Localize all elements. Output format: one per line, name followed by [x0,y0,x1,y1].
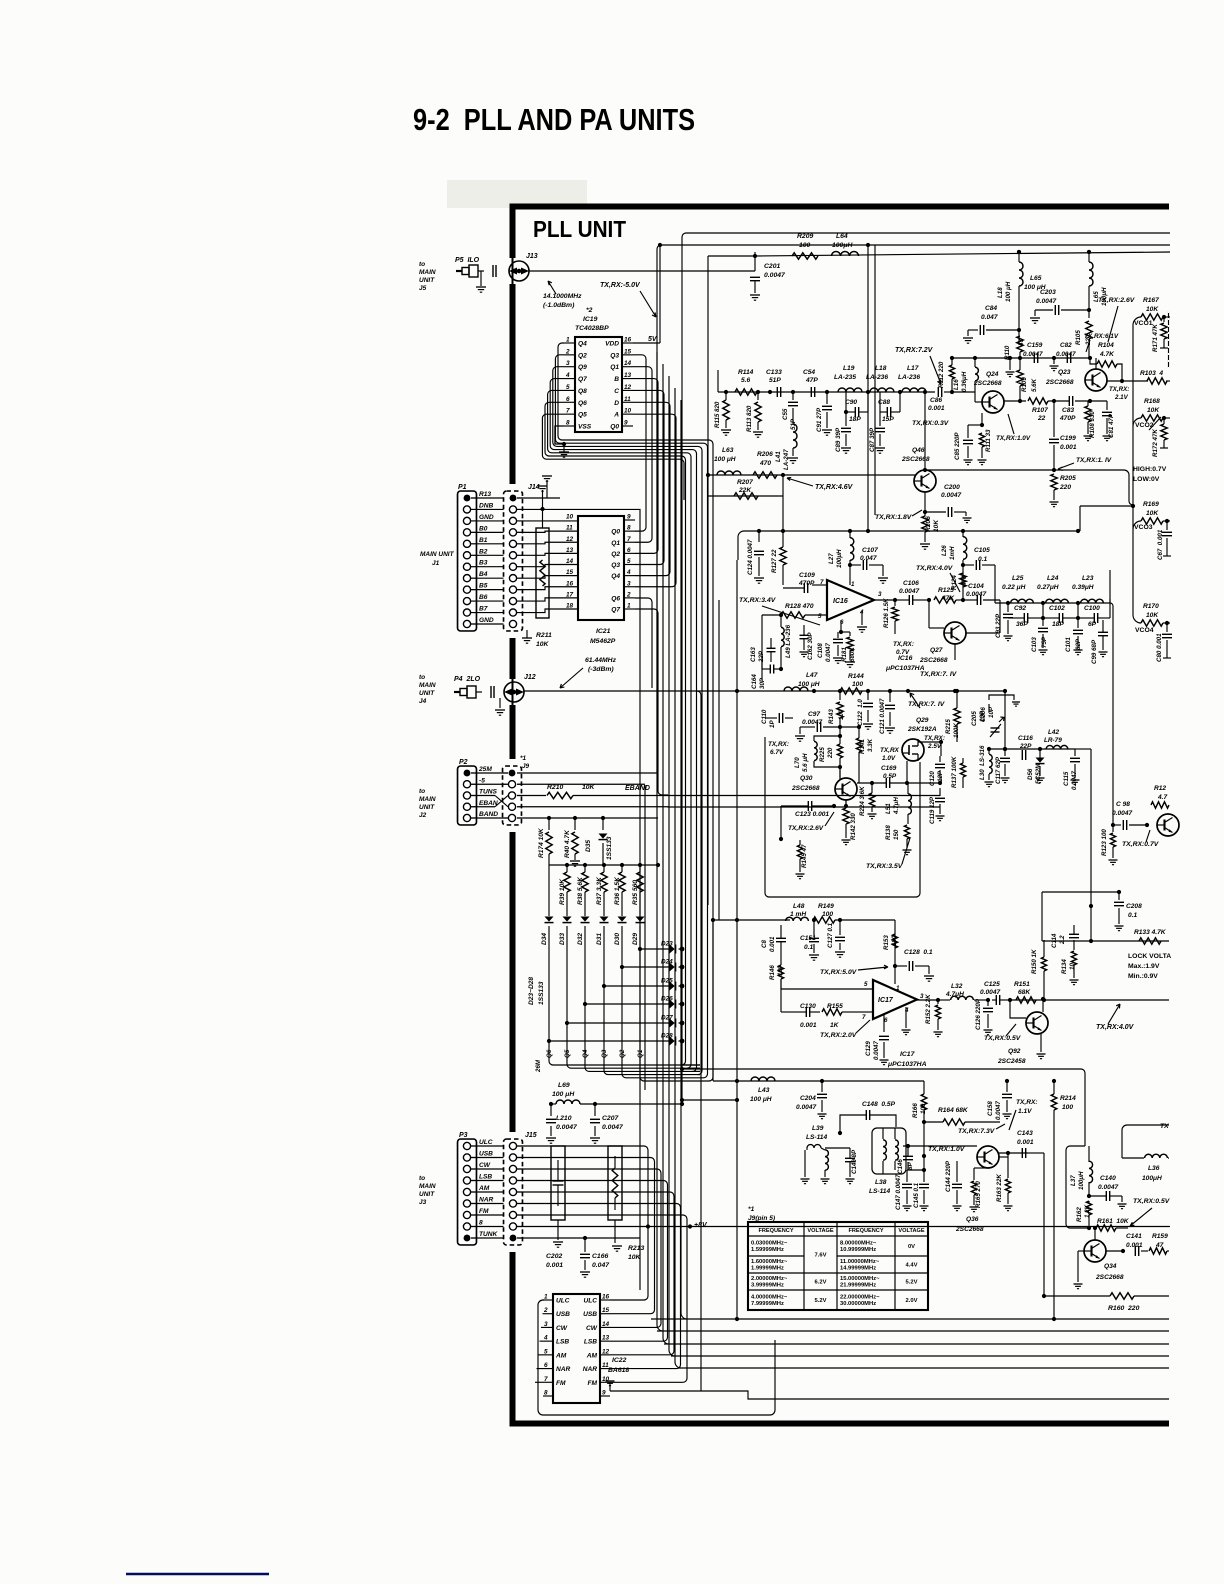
svg-text:L38: L38 [875,1179,887,1186]
TX RX 6.1V note [1084,333,1119,352]
svg-text:4.7K: 4.7K [1099,351,1115,358]
svg-text:VCO1: VCO1 [1134,320,1153,327]
capacitor C109 [783,572,827,593]
svg-text:M5462P: M5462P [590,638,616,645]
transistor Q34 [1084,1240,1124,1281]
IC22 nar wire [610,1364,1040,1366]
svg-text:15P: 15P [882,416,894,423]
capacitor C200 [923,484,972,523]
transformer L39 [801,1125,830,1184]
svg-text:C105: C105 [974,547,990,554]
svg-text:Q0: Q0 [611,529,620,536]
capacitor C130 [781,1003,820,1029]
svg-text:9-2 PLL AND PA UNITS: 9-2 PLL AND PA UNITS [413,102,695,137]
TX RX 0.5V note2 [1130,1198,1171,1226]
svg-text:B3: B3 [479,560,488,567]
IC21 M5462P [566,514,635,621]
blue underline mark [126,1573,269,1575]
svg-text:R109: R109 [1021,377,1028,392]
transistor Q27 [919,600,966,664]
svg-text:C151: C151 [800,935,816,942]
vco section box [737,733,920,897]
svg-text:5.2V: 5.2V [906,1280,918,1286]
svg-text:1: 1 [566,337,570,344]
svg-text:TX,RX:2.6V: TX,RX:2.6V [788,825,824,832]
svg-text:C163: C163 [750,647,757,662]
svg-text:100μH: 100μH [1078,1171,1085,1190]
svg-text:100 μH: 100 μH [714,456,736,463]
resistor R141 [856,725,874,783]
svg-text:ULC: ULC [583,1298,597,1305]
wire ic17 in [781,1011,800,1013]
resistor R123 [1101,825,1118,865]
svg-text:3: 3 [920,993,924,1000]
to MAIN UNIT J2 note [419,788,436,819]
svg-text:2SC2668: 2SC2668 [1095,1274,1124,1281]
svg-text:C90: C90 [845,399,857,406]
svg-text:R105: R105 [1075,330,1082,345]
svg-text:0.0047: 0.0047 [825,643,832,662]
svg-text:5.6: 5.6 [741,377,750,384]
TX RX 4.0V note [916,565,960,592]
wire txrx4 line [1008,998,1169,1002]
capacitor C83 [1059,396,1107,422]
IC22 BA618 [543,1294,610,1404]
wire x737 long [736,560,738,1319]
svg-text:1.1V: 1.1V [1018,1108,1032,1115]
svg-text:10: 10 [566,514,574,521]
wire Q23 collector [1095,358,1097,369]
svg-text:10K: 10K [582,784,596,791]
resistor R206a [753,451,777,478]
svg-text:R123 100: R123 100 [1101,829,1108,856]
resistor R160 [1042,1293,1169,1312]
svg-text:EBAND: EBAND [625,785,650,792]
inductor L69 [549,1082,684,1106]
svg-text:7: 7 [862,1014,866,1021]
svg-text:C108: C108 [817,643,824,658]
svg-text:C203: C203 [1040,289,1056,296]
svg-text:CW: CW [586,1325,598,1332]
svg-text:C82: C82 [1060,342,1072,349]
TX RX 7.2V note [895,347,941,384]
P3 pin labels [471,1139,508,1238]
svg-text:22: 22 [1037,415,1046,422]
svg-text:B6: B6 [479,594,488,601]
EBAND net label [625,785,650,792]
svg-text:0.36μH: 0.36μH [961,371,968,392]
resistor R125 [934,587,965,603]
svg-text:6: 6 [884,1017,888,1024]
svg-text:2SC2668: 2SC2668 [955,1226,984,1233]
svg-text:100μH: 100μH [836,549,843,568]
svg-text:J9: J9 [522,763,530,770]
svg-text:Q3: Q3 [611,562,620,569]
svg-text:R107: R107 [1032,407,1048,414]
P1 pin labels [471,491,506,624]
capacitor C55 [782,390,798,430]
svg-text:47K: 47K [941,595,955,602]
svg-text:3: 3 [878,591,882,598]
connector P2 [458,766,477,825]
svg-text:51P: 51P [769,377,781,384]
connector J9 [503,766,522,825]
svg-text:L41: L41 [775,451,782,462]
diode D35 [585,816,613,865]
svg-text:TX,RX:: TX,RX: [768,741,789,748]
wire L48 row [711,918,790,966]
capacitor C105 [963,547,995,570]
capacitor C141 [1126,1233,1148,1256]
svg-text:C128 0.1: C128 0.1 [904,949,933,956]
svg-text:R172 47K: R172 47K [1152,429,1159,457]
wires P2 to J9 [471,773,508,818]
title heading [413,102,695,137]
svg-text:TX,RX:1.0V: TX,RX:1.0V [996,435,1031,442]
svg-text:D35: D35 [585,840,592,852]
svg-text:AM: AM [586,1352,598,1359]
transistor Q23 [1045,369,1107,391]
IC17 pin3 [917,993,940,1002]
svg-text:4: 4 [565,372,570,379]
capacitor C110 [737,705,793,728]
capacitor C106 [895,580,931,605]
svg-text:Q3: Q3 [610,352,619,359]
svg-text:D29: D29 [632,933,639,945]
svg-text:C123 0.001: C123 0.001 [795,811,829,818]
svg-text:C200: C200 [944,484,960,491]
svg-text:L24: L24 [1047,575,1059,582]
svg-text:USB: USB [479,1151,493,1158]
svg-text:C205: C205 [971,711,978,726]
svg-text:R168: R168 [1144,398,1160,405]
capacitor C107 [850,547,888,583]
svg-text:L43: L43 [758,1087,770,1094]
TX RX 1.0V note3 [928,1146,966,1153]
ground at J12 [495,698,505,715]
svg-text:220: 220 [1059,484,1071,491]
TX RX 3.4V note [739,597,820,625]
wire ic16 out right [966,600,1000,633]
svg-text:LA-247: LA-247 [783,449,790,470]
svg-text:C206: C206 [980,707,987,722]
svg-text:LSB: LSB [479,1174,492,1181]
svg-text:B4: B4 [479,571,488,578]
svg-text:2SK192A: 2SK192A [907,726,937,733]
svg-text:R114: R114 [738,369,754,376]
variable capacitor C206 [980,695,1020,737]
svg-text:C117 62P: C117 62P [995,756,1002,784]
capacitor C91 [816,392,832,435]
IC22 right pin wires [535,1290,687,1382]
IC16 pin7 [812,579,827,586]
svg-text:Q92: Q92 [1008,1048,1021,1055]
inductor L30b [979,745,994,787]
svg-text:0.001: 0.001 [1017,1139,1034,1146]
svg-text:Q2: Q2 [619,1049,626,1058]
svg-text:J4: J4 [419,698,427,705]
resistor R210 [517,784,596,799]
svg-text:10.99999MHz: 10.99999MHz [840,1247,876,1253]
svg-text:R38 5.6K: R38 5.6K [577,876,584,905]
svg-text:NAR: NAR [583,1366,598,1373]
IC17 pin6 [884,1015,888,1032]
svg-text:0.047: 0.047 [860,555,877,562]
svg-text:10K: 10K [536,641,550,648]
TX RX 0.7V note2 [1122,830,1160,848]
capacitor C67 [1157,521,1172,560]
transistor Q30 [791,775,857,800]
IC22 left loop wire [538,1300,775,1415]
TX label cut [1160,1123,1169,1130]
inductor L25 [1002,575,1033,603]
ground above J14 [542,476,552,498]
capacitor C144 [945,1160,962,1211]
svg-text:(-1.0dBm): (-1.0dBm) [543,302,575,309]
svg-text:C120: C120 [929,771,936,786]
R170 VCO4 [1133,603,1170,634]
svg-text:Q2: Q2 [578,352,587,359]
svg-text:VOLTAGE: VOLTAGE [898,1228,924,1234]
svg-text:0.0047: 0.0047 [873,1041,880,1060]
svg-text:R213: R213 [628,1245,644,1252]
wire vco node [987,747,1075,751]
inductor L18b [997,250,1046,345]
wire fet source [906,761,908,783]
capacitor C90 [844,392,868,423]
capacitor C128 [893,949,934,981]
to MAIN UNIT J1 note [420,551,455,567]
svg-text:MAIN: MAIN [419,269,436,276]
svg-text:0.0047: 0.0047 [802,719,823,726]
svg-text:NAR: NAR [556,1366,571,1373]
capacitor C117 [995,749,1010,784]
ground at J13 [476,271,486,292]
vertical bus bundle [657,352,687,1368]
to MAIN UNIT J5 note [419,261,436,292]
LOCK VOLTAGE note [1128,953,1171,980]
resistor R205 [1050,474,1077,507]
svg-text:5: 5 [544,1348,548,1355]
inductor L42 [1044,729,1068,749]
svg-text:1 mH: 1 mH [790,911,806,918]
matrix diodes D34-D29 [541,865,645,1055]
resistor R126 [883,598,898,634]
IC17 pin7 [857,1012,873,1021]
svg-text:C89 39P: C89 39P [835,427,842,452]
connector P4 label [454,676,481,683]
wire EBAN row [517,806,940,808]
capacitor C204 [796,1081,827,1119]
svg-text:100 μH: 100 μH [1005,281,1012,302]
svg-text:L36: L36 [1148,1165,1160,1172]
svg-text:100: 100 [838,709,845,720]
resistor R108 [1084,401,1097,441]
svg-text:C166: C166 [592,1253,608,1260]
resistor R124 [951,573,968,590]
resistor R40 [564,816,580,866]
svg-text:1SS133: 1SS133 [538,981,545,1005]
J15 label [525,1132,537,1139]
svg-text:C126 220P: C126 220P [975,998,982,1030]
wire q92 emitter [1037,1034,1046,1059]
svg-text:C99 68P: C99 68P [1091,639,1098,664]
svg-text:C92: C92 [1014,605,1026,612]
HIGH LOW note [1133,466,1167,483]
svg-text:R138: R138 [885,825,892,840]
resistor R152 [925,994,943,1037]
svg-text:D: D [614,400,619,407]
svg-text:L23: L23 [1082,575,1094,582]
svg-text:C129: C129 [865,1041,872,1056]
svg-text:2SC2668: 2SC2668 [1045,379,1074,386]
svg-text:D31: D31 [596,933,603,945]
cap on P4 line [491,686,494,698]
svg-text:R37 3.3K: R37 3.3K [596,876,603,905]
svg-text:3.3K: 3.3K [867,738,874,752]
svg-text:2.00000MHz~: 2.00000MHz~ [751,1276,788,1282]
IC21 right pin bus wires [635,430,676,795]
svg-text:C124 0.0047: C124 0.0047 [747,539,754,575]
svg-text:8P: 8P [907,1162,914,1170]
svg-text:CW: CW [556,1325,568,1332]
svg-text:TX,RX:1. IV: TX,RX:1. IV [1076,457,1112,464]
svg-text:VOLTAGE: VOLTAGE [807,1228,833,1234]
TX RX 1.0V note2 [996,414,1031,442]
svg-text:L48: L48 [793,903,805,910]
svg-text:470P: 470P [798,580,815,587]
resistor network box [536,486,549,618]
svg-text:Q8: Q8 [578,388,587,395]
svg-text:470: 470 [961,575,968,587]
ground IC19 VSS [555,426,569,457]
J9 label [520,755,530,770]
IC16 name [885,655,925,672]
svg-text:TX,RX:4.6V: TX,RX:4.6V [815,484,854,491]
svg-text:15: 15 [624,348,632,355]
svg-text:100 μH: 100 μH [798,681,820,688]
capacitor C97 [795,711,859,741]
svg-text:13: 13 [602,1335,610,1342]
svg-text:4.7μH: 4.7μH [893,797,900,815]
svg-text:C207: C207 [602,1115,619,1122]
svg-text:C130: C130 [800,1003,816,1010]
wire mid right [994,565,996,603]
svg-text:6.7V: 6.7V [770,749,784,756]
R171 resistor [1152,317,1168,352]
resistor R146 [769,852,784,1012]
svg-text:UNIT: UNIT [419,804,435,811]
cut mark dashes [1168,311,1170,368]
svg-text:R215: R215 [945,719,952,734]
bottom bus line 1 [651,1317,1169,1321]
connector J13 [509,253,538,281]
svg-text:2SC2668: 2SC2668 [791,785,820,792]
wire EBAND row [573,795,940,798]
bottom bus line 3 [664,1343,1169,1345]
svg-text:C91 27P: C91 27P [816,407,823,432]
svg-text:R137 100K: R137 100K [951,756,958,788]
bottom bus line 4 [671,1355,1169,1357]
capacitor C210 [546,1104,578,1143]
svg-text:TX,RX:6.1V: TX,RX:6.1V [1084,333,1119,340]
svg-text:LS-114: LS-114 [869,1188,890,1195]
IC17 pin4 [902,1007,911,1035]
svg-text:2.1V: 2.1V [1114,394,1129,401]
svg-text:0.0047: 0.0047 [941,492,962,499]
op-amp IC17 [873,980,917,1019]
matrix rail [549,863,660,867]
svg-text:R127 22: R127 22 [771,549,778,573]
svg-text:Q24: Q24 [986,371,999,378]
svg-text:L64: L64 [836,233,848,240]
svg-text:0.047: 0.047 [592,1262,610,1269]
partial transistor [1151,785,1179,836]
capacitor C88 [878,392,900,423]
svg-text:USB: USB [583,1311,597,1318]
capacitor C146 [897,1146,914,1174]
svg-text:R143: R143 [828,709,835,724]
svg-text:C80 0.001: C80 0.001 [1156,633,1163,662]
transistor Q46 [901,447,936,492]
svg-text:*1: *1 [748,1206,755,1213]
transistor Q36 [955,1146,999,1233]
61.44MHz note [560,657,617,688]
resistor R165 [970,1168,989,1212]
svg-text:22K: 22K [738,487,752,494]
TX RX 1.1V note [1058,457,1112,470]
svg-text:100 μH: 100 μH [552,1091,575,1098]
svg-text:8: 8 [479,1220,483,1227]
svg-text:R169: R169 [1143,501,1159,508]
connector J15 [504,1139,523,1245]
svg-text:TX,RX:: TX,RX: [893,641,914,648]
svg-text:0.001: 0.001 [800,1022,817,1029]
svg-text:J9(pin 5): J9(pin 5) [748,1215,775,1222]
capacitor C149 [825,1131,858,1184]
capacitor C199 [1049,401,1077,470]
svg-text:12: 12 [566,536,574,543]
TX RX 4.0V note2 [1096,1004,1135,1031]
svg-text:26M: 26M [535,1059,542,1073]
resistor R149 [812,903,895,966]
svg-text:GND: GND [479,617,494,624]
svg-text:LSB: LSB [556,1339,569,1346]
svg-text:P1: P1 [458,484,467,491]
svg-text:FM: FM [556,1380,566,1387]
svg-text:Q9: Q9 [578,364,587,371]
svg-text:100: 100 [1062,1104,1073,1111]
svg-text:C83: C83 [1062,407,1074,414]
svg-text:100K: 100K [953,723,960,738]
capacitor C159 [1006,342,1043,377]
svg-text:0.0047: 0.0047 [995,1101,1002,1120]
resistor R114 [735,369,757,395]
svg-text:TX,RX:: TX,RX: [1016,1099,1038,1106]
svg-text:14: 14 [566,558,574,565]
resistor array box [608,1146,622,1220]
svg-text:4: 4 [626,569,631,576]
svg-text:0.1: 0.1 [1128,912,1137,919]
svg-text:TX,RX:4.0V: TX,RX:4.0V [916,565,954,572]
IC17 pin1 [895,966,900,992]
svg-text:10K: 10K [1146,612,1159,619]
svg-text:10K: 10K [933,519,940,532]
faded print artifact [447,180,587,208]
resistor R213 label [612,1220,644,1261]
svg-text:0.0047: 0.0047 [1023,351,1043,358]
svg-text:FREQUENCY: FREQUENCY [848,1228,883,1234]
